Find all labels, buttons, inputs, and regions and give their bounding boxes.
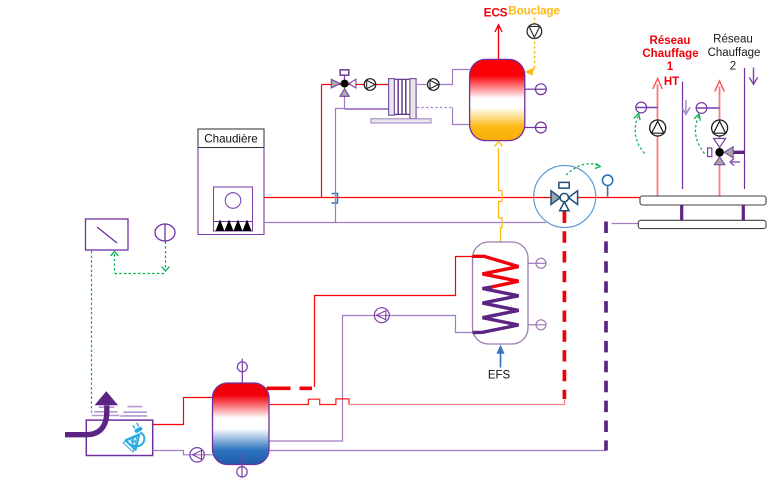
svg-text:HT: HT	[664, 76, 679, 88]
svg-text:Réseau: Réseau	[713, 34, 753, 46]
svg-text:Bouclage: Bouclage	[508, 4, 560, 18]
svg-text:EFS: EFS	[488, 370, 511, 382]
svg-text:1: 1	[667, 61, 674, 73]
svg-text:Réseau: Réseau	[650, 35, 691, 47]
svg-text:Chauffage: Chauffage	[642, 48, 698, 60]
svg-text:2: 2	[730, 61, 736, 73]
svg-text:Chaudière: Chaudière	[204, 132, 258, 145]
svg-text:Chauffage: Chauffage	[708, 47, 761, 59]
svg-text:ECS: ECS	[484, 6, 508, 20]
